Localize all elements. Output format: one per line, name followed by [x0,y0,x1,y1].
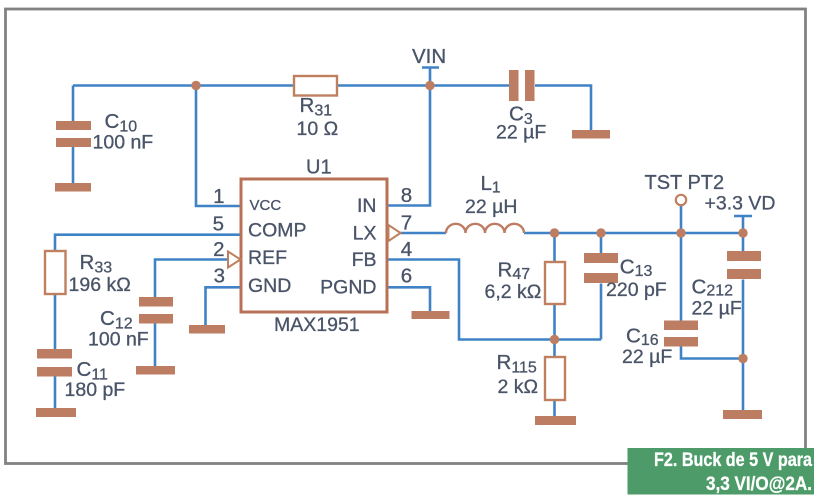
resistor R31 [294,76,337,96]
wire: vertical from junction A down to pin 1 [196,86,241,207]
wire: +3.3VD vertical to C212 [742,216,745,252]
svg-text:220 pF: 220 pF [606,279,667,301]
svg-text:MAX1951: MAX1951 [274,314,360,336]
wire: pin 2 REF to C12 [155,260,228,298]
inductor L1 [446,224,524,233]
svg-text:+3.3 VD: +3.3 VD [705,193,776,215]
resistor R33 [45,251,66,294]
svg-text:3,3 VI/O@2A.: 3,3 VI/O@2A. [706,473,812,495]
wire: R47 / R115 vertical chain [553,233,556,416]
capacitor C16 plates [664,321,698,331]
resistor R47 [545,262,565,304]
capacitor C3 plates [509,70,519,101]
capacitor C11 plates [37,349,72,359]
wire: C11 bottom lead to ground [54,377,57,410]
svg-text:VIN: VIN [412,45,446,68]
svg-text:LX: LX [353,223,377,245]
junction dot FB divider tap [550,335,559,344]
svg-text:2 kΩ: 2 kΩ [498,376,539,398]
svg-text:TST PT2: TST PT2 [645,172,725,194]
svg-text:FB: FB [352,249,377,271]
junction dot node A (R31 left) [191,81,200,90]
ground (pin 3 GND) [189,325,225,334]
svg-text:8: 8 [401,184,412,207]
svg-text:U1: U1 [306,157,332,179]
wire: C3 right lead to ground [535,86,591,132]
wire: C16 bottom lead across to C212 leg [681,346,744,359]
svg-text:22 µF: 22 µF [496,122,546,144]
wire: output rail from L1 to +3.3VD node [524,232,744,235]
svg-text:5: 5 [213,213,224,236]
svg-text:6: 6 [401,265,412,288]
wire: pin 5 COMP to R33 chain [55,235,241,350]
svg-text:1: 1 [213,185,224,208]
capacitor C13 plates [584,253,618,263]
wire: C212 bottom lead to ground [742,280,745,412]
wire: TST PT2 probe down to C16 [680,205,683,321]
junction dot C16/C212 bottom [738,354,747,363]
resistor R115 [545,357,565,400]
svg-text:3: 3 [214,265,225,288]
wire: VIN vertical down through junction B to pin 8 [388,68,430,206]
capacitor C212 plates [727,251,761,261]
wire: C13 bottom lead to FB rail [600,284,603,340]
svg-text:22 µH: 22 µH [465,196,517,218]
junction dot node VIN [425,81,434,90]
svg-text:7: 7 [401,212,412,235]
ground (C10) [55,183,91,192]
svg-text:REF: REF [248,247,287,269]
wire: top VIN rail from C10 to C3 left plate [73,84,509,87]
svg-text:100 nF: 100 nF [88,329,149,351]
wire: C12 bottom lead to ground [154,324,157,368]
ground (pin 6 PGND) [412,311,450,319]
wire: pin 6 PGND to ground [388,287,430,312]
capacitor C12 plates [139,297,173,307]
pin 7 LX driver triangle [389,225,401,241]
op-amp U1 body (MAX1951 IC) [241,179,387,312]
wire: pin 3 GND to ground [206,287,242,326]
wire: C10 bottom lead to ground [72,146,75,184]
capacitor C10 plates [56,121,91,130]
svg-text:4: 4 [401,238,412,261]
ground (C3) [572,130,610,139]
svg-text:PGND: PGND [320,277,376,299]
ground (C212) [723,410,762,419]
ground (R115) [535,416,576,425]
svg-text:VCC: VCC [250,197,282,214]
wire: VIN terminal tick [422,66,439,69]
svg-text:IN: IN [357,195,377,217]
svg-text:6,2 kΩ: 6,2 kΩ [485,281,542,303]
wire: pin 4 FB feedback run [388,260,601,340]
svg-text:22 µF: 22 µF [622,346,672,368]
svg-text:GND: GND [248,275,291,297]
junction dot C13 top [596,228,605,237]
wire: C13 top lead [600,233,603,254]
junction dot TST PT2 rail [676,228,685,237]
svg-text:100 nF: 100 nF [93,132,154,154]
svg-text:180 pF: 180 pF [65,379,126,401]
wire: pin 7 LX to L1 [400,232,446,235]
svg-text:196 kΩ: 196 kΩ [69,274,131,296]
svg-text:COMP: COMP [248,220,307,242]
ground (C11) [36,408,76,417]
svg-text:F2. Buck de 5 V para: F2. Buck de 5 V para [654,449,812,471]
svg-text:22 µF: 22 µF [692,298,742,320]
svg-text:2: 2 [213,238,224,261]
junction dot +3.3VD rail [738,228,747,237]
wire: +3.3 VD terminal tick [734,215,752,218]
figure caption box F2 [628,448,815,495]
node TST PT2 test point circle [676,195,686,205]
wire: C10 top lead [72,86,75,123]
svg-text:10 Ω: 10 Ω [297,118,339,140]
ground (C12) [136,366,175,375]
junction dot R47 top [550,228,559,237]
pin 2 REF buffer triangle [228,252,241,268]
